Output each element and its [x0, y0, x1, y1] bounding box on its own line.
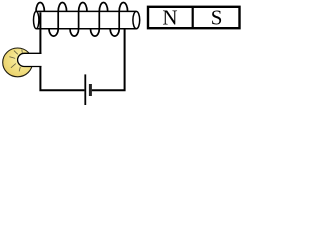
coil turn 1 top arc — [36, 2, 44, 11]
coil turn 5 — [110, 2, 127, 36]
magnet pole divider — [192, 7, 194, 29]
svg-text:S: S — [211, 6, 223, 30]
bar magnet outline — [148, 7, 240, 28]
cylinder right end cap — [133, 11, 140, 28]
coil turn 4 — [91, 2, 108, 36]
lamp rays — [9, 49, 22, 71]
coil turn 3 — [70, 2, 87, 36]
solenoid core cylinder body — [34, 11, 140, 28]
battery short plate — [89, 84, 92, 96]
wire: right lead from battery up to coil — [92, 29, 125, 90]
lamp bulb body — [3, 48, 33, 77]
battery long plate — [84, 74, 86, 105]
cylinder left end cap — [34, 11, 39, 28]
coil turn 2 — [49, 3, 67, 37]
lamp socket (white notch with contact stubs) — [18, 53, 42, 66]
wire: left lead from coil down through lamp to bottom wire — [40, 12, 84, 90]
svg-text:N: N — [162, 6, 177, 30]
